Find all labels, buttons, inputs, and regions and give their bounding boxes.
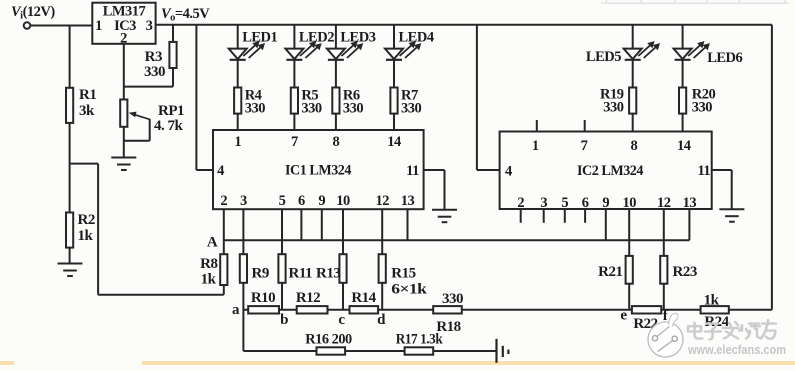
IC2 pin 3 label <box>540 195 547 211</box>
label 1k above R24 <box>704 293 720 309</box>
wire IC2 pin 10 down <box>628 209 630 256</box>
wire R13 to node c <box>342 283 344 310</box>
ground below RP1 <box>111 158 136 171</box>
LED LED4 <box>385 41 421 60</box>
svg-text:IC1 LM324: IC1 LM324 <box>285 163 352 179</box>
IC2 pin 14 label <box>677 138 691 154</box>
wire IC2 pin 6 down <box>584 209 586 223</box>
label LM317 <box>103 4 146 20</box>
ground below R2 <box>58 264 83 277</box>
svg-text:3k: 3k <box>79 103 95 119</box>
svg-text:10: 10 <box>622 195 636 211</box>
label Vo=4.5V <box>161 6 210 24</box>
label R1 3k <box>79 87 96 119</box>
wire LM317 pin2 down <box>123 44 125 100</box>
IC1 pin 4 label <box>217 163 224 179</box>
op-amp IC1 LM324 box <box>213 130 424 209</box>
label R14 <box>351 290 376 306</box>
svg-text:330: 330 <box>442 291 463 307</box>
wire R9 to node a and lower bus <box>242 283 244 351</box>
IC1 pin 12 label <box>375 193 389 209</box>
label RP1 4.7k <box>154 103 184 134</box>
svg-text:R14: R14 <box>351 290 376 306</box>
wire IC2 pin11 to ground <box>712 170 732 209</box>
svg-text:5: 5 <box>561 195 568 211</box>
wire pin2 to R3 bottom <box>124 68 173 87</box>
svg-text:R11: R11 <box>289 266 313 282</box>
svg-text:8: 8 <box>333 134 340 150</box>
svg-text:13: 13 <box>683 195 697 211</box>
wire rail to IC1 pin4 <box>196 25 213 170</box>
IC2 pin 2 label <box>517 195 524 211</box>
svg-text:6: 6 <box>298 193 305 209</box>
IC1 pin 3 label <box>240 193 247 209</box>
label R17 1.3k <box>396 332 444 348</box>
svg-text:3: 3 <box>540 195 547 211</box>
label R8 1k <box>200 256 217 288</box>
label Vi (12V) <box>11 4 55 22</box>
svg-text:Vi(12V): Vi(12V) <box>11 4 55 22</box>
wire R6 to IC1 pin 8 <box>335 114 337 130</box>
svg-text:11: 11 <box>697 163 710 179</box>
pin 3 label <box>146 18 153 34</box>
watermark url text <box>687 342 786 357</box>
wire LED2 to R5 <box>293 60 295 88</box>
wire R21 to node e <box>628 284 630 310</box>
svg-text:d: d <box>377 312 386 328</box>
svg-text:R8: R8 <box>200 256 217 272</box>
resistor R5 <box>291 88 298 114</box>
svg-text:IC2 LM324: IC2 LM324 <box>577 163 644 179</box>
resistor R1 <box>66 88 73 123</box>
label R12 <box>296 290 320 306</box>
svg-text:330: 330 <box>343 101 364 117</box>
svg-text:11: 11 <box>406 163 419 179</box>
svg-text:LED6: LED6 <box>707 50 742 66</box>
label R4 330 <box>245 88 266 117</box>
wire IC1 pin 12 down <box>381 209 383 254</box>
resistor R24 1k <box>701 306 729 313</box>
label R23 <box>673 264 697 280</box>
svg-text:330: 330 <box>301 101 322 117</box>
svg-text:1: 1 <box>234 134 241 150</box>
IC1 pin 7 label <box>291 134 298 150</box>
label R16 200 <box>305 332 352 348</box>
IC2 pin 4 label <box>505 164 512 180</box>
wire IC1 pin 5 down <box>281 209 283 254</box>
watermark chinese text <box>688 320 776 339</box>
node c label <box>338 312 345 328</box>
svg-text:e: e <box>620 308 627 324</box>
ground at IC2 pin11 <box>719 209 744 222</box>
lower bus wire <box>243 350 496 352</box>
resistor R9 <box>240 254 247 283</box>
svg-text:14: 14 <box>677 138 691 154</box>
svg-text:3: 3 <box>240 193 247 209</box>
label R21 <box>598 264 622 280</box>
wire R7 to IC1 pin 14 <box>393 114 395 130</box>
svg-text:R13: R13 <box>316 266 340 282</box>
resistor R13 <box>339 254 346 283</box>
wire rail to IC2 pin4 <box>477 25 500 170</box>
label R24 <box>704 314 729 330</box>
ground at IC1 pin11 <box>432 210 457 223</box>
resistor R19 <box>629 88 636 114</box>
svg-text:c: c <box>338 312 345 328</box>
svg-text:9: 9 <box>318 193 325 209</box>
label IC1 LM324 <box>285 163 352 179</box>
wire R11 to node b <box>281 283 283 310</box>
wire LED6 to R20 <box>682 60 684 88</box>
wire rail to LED4 <box>393 25 395 49</box>
label R7 330 <box>401 88 422 117</box>
IC1 pin 11 label <box>406 163 419 179</box>
svg-text:330: 330 <box>144 64 165 80</box>
node f label <box>663 308 669 324</box>
svg-text:R10: R10 <box>251 290 275 306</box>
svg-text:R17 1.3k: R17 1.3k <box>396 332 444 348</box>
svg-text:LED1: LED1 <box>242 30 277 46</box>
IC1 pin 9 label <box>318 193 325 209</box>
IC2 pin 7 label <box>581 138 588 154</box>
LED LED6 <box>674 41 710 60</box>
wire IC2 pin 2 down <box>520 209 522 223</box>
svg-text:R2: R2 <box>78 212 95 228</box>
RP1 wiper arrow <box>124 112 150 141</box>
op-amp IC2 LM324 box <box>500 132 712 210</box>
wire junction down to R1 <box>69 26 71 88</box>
IC2 pin 8 label <box>631 138 638 154</box>
wire rail to LED5 <box>632 25 634 49</box>
wire rail to LED3 <box>335 25 337 49</box>
svg-text:330: 330 <box>692 100 713 116</box>
label 330 above R18 <box>442 291 463 307</box>
svg-text:LED3: LED3 <box>340 30 375 46</box>
svg-text:1k: 1k <box>704 293 720 309</box>
svg-text:330: 330 <box>245 101 266 117</box>
potentiometer RP1 <box>120 100 127 127</box>
node A label <box>207 235 218 251</box>
label R10 <box>251 290 275 306</box>
resistor R17 1.3k <box>405 347 434 354</box>
wire IC2 pin 12 down <box>663 209 665 256</box>
svg-text:7: 7 <box>291 134 298 150</box>
IC1 pin 6 label <box>298 193 305 209</box>
right rail wire <box>771 25 773 310</box>
svg-text:a: a <box>232 302 240 318</box>
resistor R23 <box>660 256 667 284</box>
svg-text:1k: 1k <box>201 272 217 288</box>
wire IC1 pin 2 down <box>223 209 225 254</box>
label R5 330 <box>301 88 322 117</box>
label LED4 <box>399 30 434 46</box>
wire rail to LED1 <box>237 25 239 49</box>
svg-text:R9: R9 <box>252 266 269 282</box>
IC2 pin 7 stub <box>584 120 586 132</box>
wire R5 to IC1 pin 7 <box>293 114 295 130</box>
svg-text:12: 12 <box>375 193 389 209</box>
IC2 pin 13 label <box>683 195 697 211</box>
svg-text:R12: R12 <box>296 290 320 306</box>
svg-text:3: 3 <box>146 18 153 34</box>
wire IC1 pin 9 down <box>321 209 323 240</box>
label IC3 <box>114 18 136 34</box>
svg-text:R1: R1 <box>79 87 96 103</box>
wire LED3 to R6 <box>335 60 337 88</box>
resistor R7 <box>390 88 397 114</box>
svg-text:7: 7 <box>581 138 588 154</box>
IC2 pin 9 label <box>602 195 609 211</box>
label R3 330 <box>144 49 165 80</box>
IC2 pin 1 stub <box>536 120 538 132</box>
wire IC1 pin 10 down <box>342 209 344 254</box>
svg-text:4: 4 <box>217 163 224 179</box>
label R6 330 <box>343 88 364 117</box>
ground sideways at lower bus end <box>497 339 509 363</box>
label R2 1k <box>78 212 95 244</box>
label LED6 <box>707 50 742 66</box>
label IC2 LM324 <box>577 163 644 179</box>
ladder bus wire a to right rail <box>243 309 772 311</box>
pin 2 label <box>120 31 127 47</box>
wire R20 to IC2 pin 14 <box>682 114 684 132</box>
svg-text:12: 12 <box>657 195 671 211</box>
node b label <box>280 312 288 328</box>
IC1 pin 10 label <box>336 193 350 209</box>
wire IC2 pin 13 down <box>688 209 690 240</box>
wire LED4 to R7 <box>393 60 395 88</box>
wire LED1 to R4 <box>237 60 239 88</box>
svg-text:9: 9 <box>602 195 609 211</box>
resistor R8 <box>220 254 227 285</box>
svg-text:2: 2 <box>517 195 524 211</box>
resistor R20 <box>679 88 686 114</box>
wire IC2 pin 5 down <box>564 209 566 223</box>
svg-text:1k: 1k <box>78 228 94 244</box>
resistor R11 <box>278 254 285 283</box>
regulator U-IC3 LM317 box <box>92 3 155 44</box>
svg-text:4. 7k: 4. 7k <box>154 118 184 134</box>
wire IC1 pin 13 down <box>407 209 409 240</box>
label R15 6x1k <box>391 266 427 298</box>
svg-text:10: 10 <box>336 193 350 209</box>
label R20 330 <box>692 87 716 116</box>
LED LED1 <box>229 41 265 60</box>
svg-text:R16 200: R16 200 <box>305 332 352 348</box>
LED LED5 <box>624 41 660 60</box>
svg-text:2: 2 <box>220 193 227 209</box>
wire IC1 pin 3 down <box>242 209 244 254</box>
IC1 pin 14 label <box>387 134 401 150</box>
label R9 <box>252 266 269 282</box>
LED LED2 <box>285 41 321 60</box>
IC2 pin 12 label <box>657 195 671 211</box>
wire top supply rail 4.5V <box>156 24 772 26</box>
svg-text:R21: R21 <box>598 264 622 280</box>
IC2 pin 1 label <box>532 138 539 154</box>
svg-text:LED5: LED5 <box>586 49 621 65</box>
node d label <box>377 312 386 328</box>
IC1 pin 2 label <box>220 193 227 209</box>
IC2 pin 11 label <box>697 163 710 179</box>
resistor R22 <box>632 306 661 313</box>
svg-text:6×1k: 6×1k <box>391 282 427 298</box>
LED LED3 <box>327 41 363 60</box>
svg-text:13: 13 <box>401 193 415 209</box>
wire R1 to R2 <box>69 123 71 213</box>
label LED2 <box>299 30 334 46</box>
wire R15 to node d <box>381 283 383 310</box>
IC1 pin 5 label <box>279 193 286 209</box>
wire R23 to node f <box>663 284 665 310</box>
svg-text:www.elecfans.com: www.elecfans.com <box>687 342 786 357</box>
wire RP1 to ground <box>123 127 125 158</box>
resistor R2 <box>66 213 73 248</box>
resistor R14 <box>350 306 379 313</box>
resistor R12 <box>297 306 328 313</box>
svg-text:330: 330 <box>401 101 422 117</box>
label R22 <box>633 316 657 332</box>
resistor R10 <box>248 306 279 313</box>
wire R19 to IC2 pin 8 <box>632 114 634 132</box>
resistor R16 200 <box>317 347 346 354</box>
input terminal Vi <box>24 22 31 29</box>
wire IC1 pin 6 down <box>300 209 302 240</box>
svg-text:LED4: LED4 <box>399 30 434 46</box>
wire R2 to ground <box>69 248 71 264</box>
IC2 pin 5 label <box>561 195 568 211</box>
svg-text:RP1: RP1 <box>158 103 184 119</box>
svg-text:LED2: LED2 <box>299 30 334 46</box>
resistor R4 <box>234 88 241 114</box>
wire feedback junction to R8 <box>70 164 224 295</box>
label LED3 <box>340 30 375 46</box>
label R11 <box>289 266 313 282</box>
wire rail to LED2 <box>293 25 295 49</box>
node A bus wire <box>224 239 690 241</box>
IC2 pin 6 label <box>582 195 589 211</box>
svg-text:A: A <box>207 235 218 251</box>
wire input to LM317 pin1 <box>31 25 93 27</box>
IC1 pin 13 label <box>401 193 415 209</box>
resistor R18 330 <box>433 306 462 313</box>
label R13 <box>316 266 340 282</box>
resistor R15 <box>379 254 386 283</box>
wire IC1 pin11 to ground <box>424 170 445 210</box>
resistor R3 <box>169 42 176 68</box>
svg-text:R23: R23 <box>673 264 697 280</box>
svg-text:Vo=4.5V: Vo=4.5V <box>161 6 210 24</box>
svg-text:b: b <box>280 312 288 328</box>
resistor R21 <box>626 256 633 284</box>
svg-text:8: 8 <box>631 138 638 154</box>
wire IC2 pin 9 down <box>605 209 607 240</box>
svg-text:4: 4 <box>505 164 512 180</box>
IC1 pin 1 label <box>234 134 241 150</box>
label LED1 <box>242 30 277 46</box>
wire IC2 pin 3 down <box>543 209 545 223</box>
node a label <box>232 302 240 318</box>
label R18 <box>436 319 460 335</box>
label LED5 <box>586 49 621 65</box>
svg-text:1: 1 <box>532 138 539 154</box>
svg-text:R15: R15 <box>391 266 415 282</box>
wire LED5 to R19 <box>632 60 634 88</box>
node e label <box>620 308 627 324</box>
pin 1 label <box>95 18 102 34</box>
watermark logo <box>648 313 683 357</box>
svg-text:1: 1 <box>95 18 102 34</box>
IC1 pin 8 label <box>333 134 340 150</box>
label R19 330 <box>600 87 624 116</box>
wire R3 to rail <box>172 25 174 42</box>
svg-text:6: 6 <box>582 195 589 211</box>
svg-text:R3: R3 <box>145 49 162 65</box>
wire R4 to IC1 pin 1 <box>237 114 239 130</box>
svg-text:330: 330 <box>603 100 624 116</box>
wire rail to LED6 <box>682 25 684 49</box>
svg-text:14: 14 <box>387 134 401 150</box>
IC2 pin 10 label <box>622 195 636 211</box>
svg-text:5: 5 <box>279 193 286 209</box>
resistor R6 <box>332 88 339 114</box>
